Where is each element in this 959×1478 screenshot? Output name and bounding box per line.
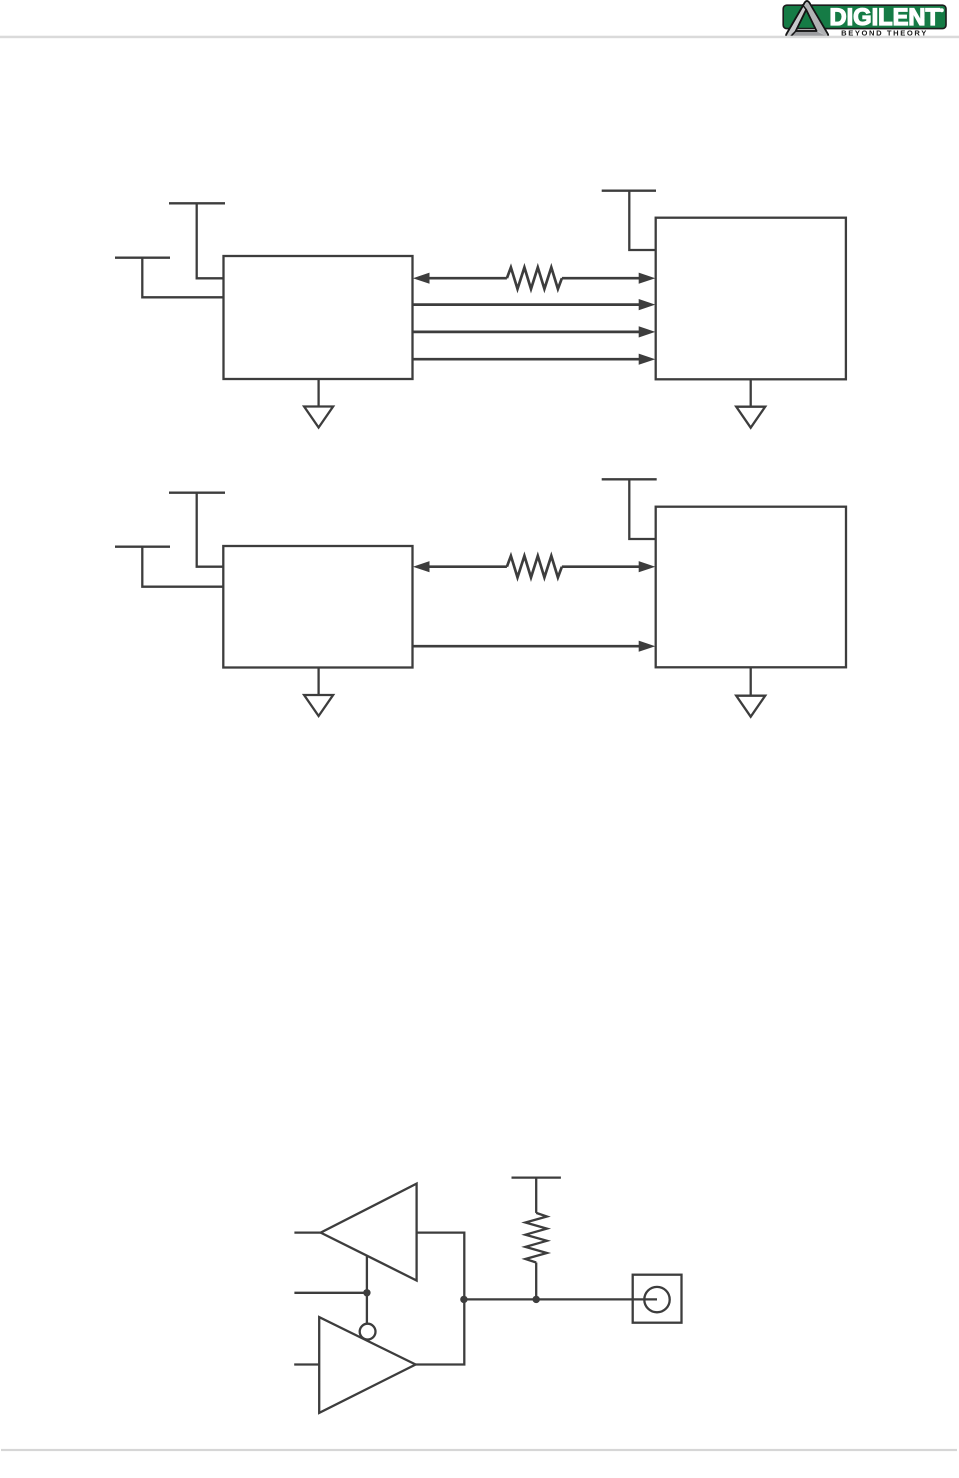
- wire from output buffer up to node: [416, 1299, 465, 1364]
- ground GND2 (diagram1 right): [736, 379, 765, 427]
- header separator rule: [0, 36, 959, 39]
- ground GND4 (diagram2 right): [736, 667, 765, 716]
- resistor R1 (diagram1): [507, 267, 562, 289]
- wire W2 (diagram1): [413, 303, 642, 306]
- wire output-enable: [294, 1292, 367, 1294]
- arrowhead W6: [639, 641, 656, 652]
- pad symbol (square): [633, 1275, 682, 1323]
- footer separator rule: [1, 1449, 957, 1451]
- power symbol P1 (diagram1 left upper): [169, 203, 225, 278]
- wire enable vertical branch: [366, 1256, 368, 1325]
- resistor R2 (diagram2): [507, 556, 562, 578]
- resistor R3 (pull-up, vertical): [525, 1213, 547, 1263]
- Digilent logo Penrose triangle: [786, 1, 828, 37]
- Digilent logo wordmark DIGILENT: [830, 4, 944, 31]
- junction dot node A: [460, 1296, 467, 1303]
- arrowhead W1 right: [639, 273, 656, 284]
- IC box U2 (diagram1 right): [656, 218, 846, 380]
- IC box U3 (diagram2 left): [223, 546, 412, 668]
- junction dot on enable wire: [363, 1289, 370, 1296]
- arrowhead W1 left: [413, 273, 430, 284]
- wire W5 bidirectional (diagram2): [427, 565, 641, 568]
- op-amp style input buffer G1 (points left): [321, 1184, 417, 1281]
- power symbol P6 (diagram2 right): [602, 479, 657, 539]
- power symbol P4 (diagram2 left upper): [169, 493, 225, 567]
- wire from input buffer to node: [417, 1233, 465, 1300]
- IC box U4 (diagram2 right): [656, 507, 846, 668]
- ground GND1 (diagram1 left): [304, 379, 333, 428]
- wire W3 (diagram1): [413, 331, 642, 334]
- arrowhead W5 left: [413, 561, 430, 572]
- wire input to output buffer: [294, 1363, 319, 1365]
- ground GND3 (diagram2 left): [304, 668, 333, 717]
- arrowhead W2: [639, 299, 656, 310]
- power symbol P7 (pull-up rail): [512, 1178, 561, 1213]
- op-amp style output buffer G2 (points right): [319, 1317, 415, 1413]
- pad circle: [644, 1287, 669, 1312]
- inverter bubble on output buffer enable: [360, 1324, 376, 1340]
- wire resistor to node B: [535, 1263, 537, 1300]
- arrowhead W4: [639, 354, 656, 365]
- wire W1 bidirectional (diagram1): [427, 277, 641, 280]
- pad wire stub inside: [633, 1298, 657, 1300]
- IC box U1 (diagram1 left): [224, 256, 413, 379]
- junction dot node B: [533, 1296, 540, 1303]
- wire node A to pad: [464, 1298, 657, 1300]
- wire W6 (diagram2): [413, 645, 642, 648]
- power symbol P3 (diagram1 right): [602, 191, 656, 250]
- wire input to input buffer: [294, 1231, 320, 1233]
- power symbol P5 (diagram2 left lower): [115, 547, 223, 587]
- power symbol P2 (diagram1 left lower): [115, 258, 224, 298]
- arrowhead W5 right: [639, 561, 656, 572]
- arrowhead W3: [639, 326, 656, 337]
- wire W4 (diagram1): [413, 358, 642, 361]
- Digilent logo green banner: [783, 5, 946, 28]
- svg-text:DIGILENT: DIGILENT: [830, 4, 941, 31]
